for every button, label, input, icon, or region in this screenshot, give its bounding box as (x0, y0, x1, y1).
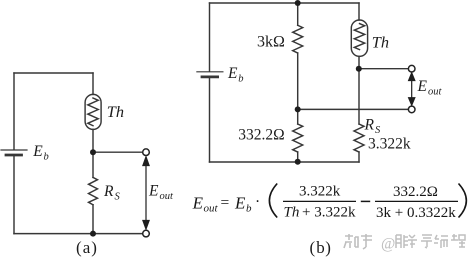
svg-text:out: out (204, 203, 219, 215)
svg-text:Th: Th (284, 205, 300, 221)
svg-text:3.322k: 3.322k (299, 184, 341, 200)
svg-text:+ 3.322k: + 3.322k (302, 205, 356, 221)
svg-text:out: out (160, 191, 175, 202)
svg-text:Th: Th (107, 102, 124, 121)
svg-text:E: E (148, 183, 159, 200)
svg-text:332.2Ω: 332.2Ω (393, 184, 438, 200)
svg-text:E: E (192, 194, 204, 213)
svg-text:@: @ (381, 236, 395, 253)
svg-text:b: b (246, 203, 252, 215)
svg-text:=: = (221, 195, 230, 212)
svg-text:R: R (364, 117, 375, 134)
svg-text:out: out (428, 87, 443, 98)
svg-text:b: b (238, 74, 243, 85)
svg-text:a: a (83, 238, 91, 257)
svg-text:332.2Ω: 332.2Ω (238, 127, 284, 144)
svg-text:3kΩ: 3kΩ (257, 34, 285, 51)
svg-text:b: b (44, 152, 49, 163)
svg-text:S: S (375, 125, 381, 136)
svg-text:R: R (103, 183, 114, 200)
svg-text:b: b (316, 238, 325, 257)
svg-text:·: · (255, 194, 260, 211)
svg-text:E: E (227, 65, 238, 82)
svg-text:S: S (115, 192, 121, 203)
svg-text:3k + 0.3322k: 3k + 0.3322k (376, 205, 456, 221)
svg-text:E: E (32, 143, 43, 160)
svg-text:E: E (234, 194, 246, 213)
svg-text:(: ( (310, 238, 316, 257)
svg-text:): ) (91, 238, 97, 257)
svg-text:E: E (417, 78, 428, 95)
svg-text:3.322k: 3.322k (368, 136, 411, 153)
svg-text:): ) (325, 238, 331, 257)
svg-text:Th: Th (372, 33, 389, 52)
svg-text:(: ( (76, 238, 82, 257)
